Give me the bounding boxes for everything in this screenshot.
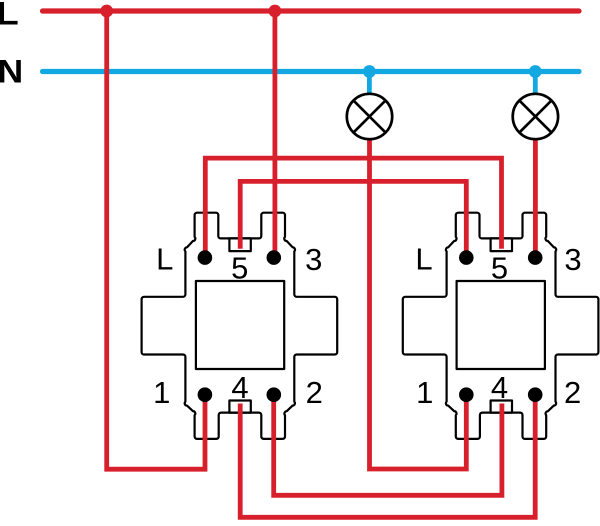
wire SW1 terminal 2 to SW2 terminal 4: [274, 395, 502, 496]
svg-text:3: 3: [305, 242, 322, 277]
wire SW1 terminal 5 to SW2 terminal L: [240, 181, 466, 257]
switch SW1 terminal 5 box: [229, 238, 250, 251]
svg-text:4: 4: [231, 370, 248, 405]
wire lamp1 N stub: [367, 72, 372, 97]
node L junction 2: [269, 5, 282, 18]
wire lamp1 to SW2 terminal 1: [370, 138, 467, 469]
wire L junction to SW1 terminal 1: [107, 11, 205, 469]
switch SW2 terminal 4 box: [491, 401, 512, 413]
SW1 terminal 2 dot: [267, 387, 282, 402]
wire L junction to SW1 terminal 3: [272, 11, 277, 258]
SW1 terminal 3 dot: [267, 250, 282, 265]
svg-text:5: 5: [231, 251, 248, 286]
switch SW1 outline: [142, 213, 338, 439]
wire L line: [43, 8, 580, 13]
node L junction 1: [100, 5, 113, 18]
wire lamp2 to SW2 terminal 3: [533, 138, 538, 258]
SW2 terminal 2 dot: [528, 387, 543, 402]
switch SW2 rocker square: [457, 281, 545, 369]
node N junction 2: [529, 65, 542, 78]
svg-text:5: 5: [491, 251, 508, 286]
svg-text:3: 3: [564, 242, 581, 277]
svg-text:N: N: [0, 54, 23, 90]
svg-text:4: 4: [491, 370, 508, 405]
wire N line: [43, 69, 580, 74]
switch SW1 terminal 4 box: [229, 401, 250, 413]
wire SW1 terminal L to SW2 terminal 5: [205, 158, 501, 258]
wire lamp2 N stub: [533, 72, 538, 97]
SW2 terminal L dot: [459, 250, 474, 265]
SW2 terminal 3 dot: [528, 250, 543, 265]
wire SW1 terminal 4 to SW2 terminal 2: [240, 395, 535, 518]
node N junction 1: [363, 65, 376, 78]
lamp E1: [347, 94, 392, 139]
switch SW2 terminal 5 box: [491, 238, 512, 251]
SW1 terminal L dot: [198, 250, 213, 265]
svg-text:1: 1: [416, 375, 433, 410]
lamp E2: [513, 94, 558, 139]
svg-text:2: 2: [306, 375, 323, 410]
svg-text:2: 2: [564, 375, 581, 410]
svg-text:L: L: [415, 242, 432, 277]
svg-text:L: L: [156, 242, 173, 277]
svg-text:L: L: [0, 0, 19, 32]
SW2 terminal 1 dot: [459, 387, 474, 402]
switch SW1 rocker square: [196, 281, 284, 369]
SW1 terminal 1 dot: [198, 387, 213, 402]
switch SW2 outline: [403, 213, 599, 439]
svg-text:1: 1: [153, 375, 170, 410]
